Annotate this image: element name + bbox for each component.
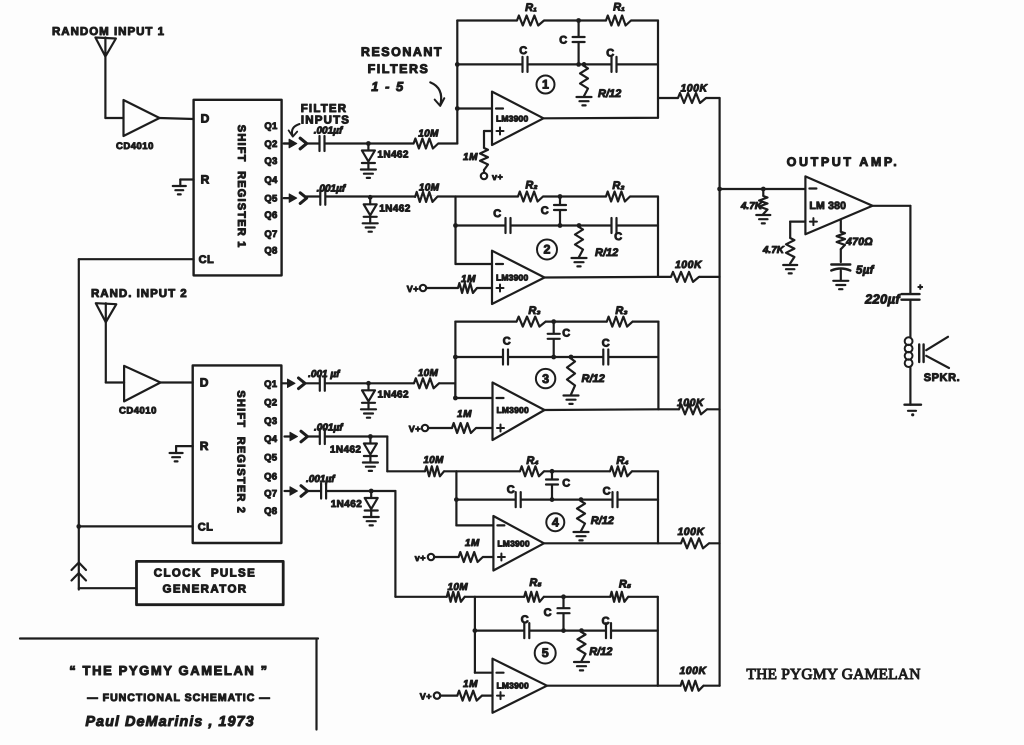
svg-text:LM3900: LM3900 (497, 681, 529, 691)
svg-text:C: C (606, 48, 614, 60)
svg-text:100K: 100K (677, 397, 705, 409)
svg-text:R/12: R/12 (582, 373, 605, 385)
svg-text:1M: 1M (465, 538, 480, 549)
svg-text:C: C (562, 478, 570, 490)
svg-text:Q4: Q4 (264, 434, 278, 445)
svg-text:R/12: R/12 (598, 88, 621, 100)
svg-text:4.7K: 4.7K (762, 245, 785, 256)
svg-text:Q1: Q1 (264, 379, 278, 390)
svg-text:C: C (562, 328, 570, 340)
svg-text:OUTPUT AMP.: OUTPUT AMP. (787, 155, 900, 169)
svg-text:4.7K: 4.7K (740, 201, 763, 212)
svg-text:SPKR.: SPKR. (924, 372, 961, 384)
svg-text:v+: v+ (492, 172, 503, 182)
svg-text:Q8: Q8 (264, 245, 277, 256)
svg-text:D: D (200, 376, 209, 390)
svg-text:SHIFT REGISTER 1: SHIFT REGISTER 1 (235, 125, 247, 249)
svg-text:CL: CL (198, 521, 214, 533)
svg-text:.001µf: .001µf (314, 126, 344, 137)
svg-text:1M: 1M (457, 409, 472, 420)
svg-text:C: C (602, 616, 610, 628)
svg-text:C: C (602, 338, 610, 350)
svg-text:LM 380: LM 380 (809, 200, 846, 212)
svg-text:LM3900: LM3900 (496, 113, 528, 123)
svg-text:C: C (507, 484, 515, 496)
svg-text:Q5: Q5 (264, 194, 278, 205)
svg-text:R₃: R₃ (615, 305, 627, 317)
svg-text:CL: CL (199, 254, 215, 266)
svg-text:R₁: R₁ (525, 2, 537, 14)
svg-text:R/12: R/12 (589, 646, 612, 658)
svg-text:1M: 1M (463, 152, 478, 163)
svg-text:FILTERS: FILTERS (368, 62, 430, 76)
svg-text:4: 4 (552, 515, 559, 529)
svg-text:Q5: Q5 (264, 452, 278, 463)
svg-text:GENERATOR: GENERATOR (162, 584, 247, 596)
svg-text:Q6: Q6 (264, 210, 277, 221)
svg-text:100K: 100K (680, 83, 708, 95)
svg-text:R₄: R₄ (616, 455, 628, 467)
svg-text:1N462: 1N462 (331, 499, 363, 510)
svg-text:1N462: 1N462 (378, 389, 410, 400)
svg-text:C: C (503, 336, 511, 348)
svg-text:.001 µf: .001 µf (308, 369, 341, 380)
svg-text:10M: 10M (448, 582, 469, 593)
svg-text:C: C (521, 614, 529, 626)
svg-text:1N462: 1N462 (330, 445, 362, 456)
svg-text:.001µf: .001µf (306, 474, 336, 485)
svg-text:Q3: Q3 (264, 416, 277, 427)
svg-text:10M: 10M (419, 182, 440, 193)
svg-text:2: 2 (544, 243, 551, 257)
svg-text:R₂: R₂ (525, 180, 537, 192)
svg-text:LM3900: LM3900 (497, 405, 529, 415)
svg-text:.001µf: .001µf (317, 184, 347, 195)
svg-text:CD4010: CD4010 (119, 406, 157, 417)
svg-text:R₅: R₅ (529, 577, 542, 589)
svg-text:1: 1 (542, 78, 549, 92)
svg-text:1 - 5: 1 - 5 (371, 79, 405, 94)
svg-text:220µf: 220µf (864, 292, 901, 307)
svg-text:C: C (544, 607, 552, 619)
svg-text:R/12: R/12 (591, 515, 614, 527)
svg-text:C: C (559, 35, 567, 47)
svg-text:“ THE PYGMY GAMELAN ”: “ THE PYGMY GAMELAN ” (69, 663, 268, 678)
svg-text:3: 3 (542, 372, 549, 386)
svg-text:V+: V+ (409, 424, 421, 434)
svg-text:V+: V+ (420, 692, 432, 702)
svg-text:Q7: Q7 (264, 229, 277, 240)
svg-text:Q4: Q4 (264, 175, 278, 186)
svg-text:470Ω: 470Ω (845, 236, 873, 248)
svg-text:R₅: R₅ (619, 578, 632, 590)
svg-text:1N462: 1N462 (377, 150, 409, 161)
svg-text:R₃: R₃ (528, 305, 540, 317)
svg-text:LM3900: LM3900 (496, 273, 528, 283)
svg-text:— FUNCTIONAL SCHEMATIC —: — FUNCTIONAL SCHEMATIC — (87, 692, 270, 704)
svg-text:Q6: Q6 (264, 471, 277, 482)
svg-text:Q3: Q3 (264, 156, 277, 167)
svg-text:100K: 100K (679, 665, 707, 677)
svg-text:V+: V+ (407, 284, 419, 294)
svg-text:5: 5 (542, 646, 549, 660)
svg-text:+: + (918, 282, 924, 292)
svg-text:RESONANT: RESONANT (361, 45, 443, 59)
svg-text:10M: 10M (418, 128, 439, 139)
svg-text:1N462: 1N462 (379, 203, 411, 214)
svg-text:RAND. INPUT 2: RAND. INPUT 2 (91, 288, 188, 300)
svg-text:D: D (201, 111, 210, 125)
svg-text:R: R (201, 173, 210, 187)
svg-text:Q2: Q2 (264, 398, 277, 409)
svg-text:SHIFT REGISTER 2: SHIFT REGISTER 2 (235, 390, 247, 514)
svg-text:Q8: Q8 (264, 506, 277, 517)
svg-text:1M: 1M (463, 679, 478, 690)
svg-text:10M: 10M (418, 368, 439, 379)
svg-text:C: C (603, 486, 611, 498)
svg-text:C: C (493, 208, 501, 220)
svg-text:10M: 10M (423, 455, 444, 466)
svg-text:.001µf: .001µf (314, 423, 344, 434)
svg-text:Q7: Q7 (264, 489, 277, 500)
svg-text:R₁: R₁ (613, 2, 625, 14)
svg-text:C: C (541, 205, 549, 217)
svg-text:LM3900: LM3900 (497, 538, 529, 548)
svg-text:Q1: Q1 (264, 121, 278, 132)
svg-text:Paul DeMarinis , 1973: Paul DeMarinis , 1973 (85, 714, 254, 730)
svg-text:5µf: 5µf (856, 265, 875, 277)
svg-text:v+: v+ (415, 553, 426, 563)
svg-text:R₂: R₂ (612, 180, 624, 192)
svg-text:100K: 100K (675, 259, 703, 271)
svg-text:R₄: R₄ (526, 455, 538, 467)
svg-text:RANDOM INPUT 1: RANDOM INPUT 1 (52, 26, 165, 38)
svg-text:C: C (614, 231, 622, 243)
svg-text:C: C (519, 45, 527, 57)
svg-text:CD4010: CD4010 (116, 141, 154, 152)
svg-text:CLOCK PULSE: CLOCK PULSE (154, 568, 256, 580)
svg-text:R/12: R/12 (595, 247, 618, 259)
svg-text:THE PYGMY GAMELAN: THE PYGMY GAMELAN (746, 666, 920, 683)
svg-text:R: R (200, 439, 209, 453)
svg-text:Q2: Q2 (264, 139, 277, 150)
svg-text:100K: 100K (677, 526, 705, 538)
svg-text:FILTER: FILTER (301, 103, 348, 115)
svg-text:1M: 1M (461, 274, 476, 285)
